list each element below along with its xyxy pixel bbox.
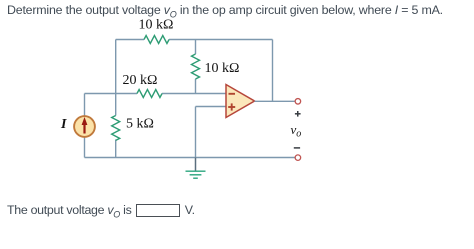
wire: bottom bus [85, 157, 296, 159]
wire: current source branch lower [84, 137, 86, 158]
wire: vertical 10k upper stub [195, 40, 197, 55]
wire: non-inverting input horizontal [196, 106, 227, 108]
svg-text:20 kΩ: 20 kΩ [123, 73, 158, 88]
current source I circle [74, 116, 95, 137]
resistor R4 10 kOhm vertical zigzag [192, 54, 200, 79]
label: plus polarity mark [295, 111, 301, 117]
terminal: output positive (open circle) [295, 99, 301, 105]
wire: left vertical branch lower [115, 140, 117, 158]
current source arrow [82, 117, 88, 134]
terminal: output negative (open circle) [295, 155, 301, 161]
svg-text:I: I [60, 117, 67, 132]
label: minus polarity mark [294, 147, 300, 149]
op-amp U1 triangle [226, 85, 255, 118]
wire: non-inverting input vertical to ground bus [195, 107, 197, 158]
wire: middle wire right of 20k to inverting input [162, 93, 226, 95]
wire: current source branch upper [84, 94, 86, 117]
op-amp minus sign (inverting input) [229, 93, 236, 95]
wire: op-amp output to terminal [255, 100, 296, 102]
ground stub wire [195, 158, 197, 171]
svg-text:10 kΩ: 10 kΩ [205, 61, 240, 76]
svg-text:vo: vo [291, 122, 302, 140]
op-amp plus sign (non-inverting input) [228, 103, 235, 110]
wire: left vertical branch upper [115, 40, 117, 116]
wire: middle wire left of 20k [85, 93, 138, 95]
resistor R3 20 kOhm horizontal zigzag [137, 90, 162, 98]
wire: feedback vertical from top loop to output [272, 40, 274, 102]
svg-text:5 kΩ: 5 kΩ [126, 117, 154, 132]
wire: top feedback loop left segment [116, 39, 144, 41]
wire: top feedback loop right segment [169, 39, 273, 41]
resistor R1 10 kOhm horizontal zigzag [144, 36, 169, 44]
ground symbol [186, 171, 206, 178]
resistor R2 5 kOhm vertical zigzag [112, 116, 120, 141]
svg-text:10 kΩ: 10 kΩ [139, 18, 174, 33]
wire: vertical 10k lower stub [195, 79, 197, 94]
